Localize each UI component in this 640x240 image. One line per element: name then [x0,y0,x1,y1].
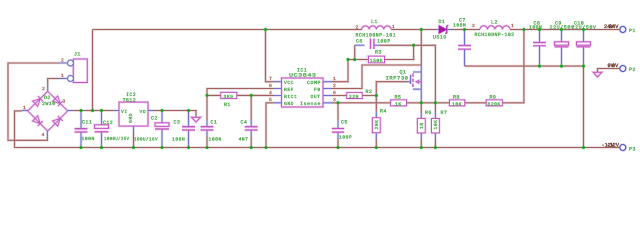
svg-text:GND: GND [284,101,294,107]
svg-text:FB: FB [314,87,321,93]
resistor R7 [432,110,448,133]
wire FB to drain row [332,65,422,89]
svg-text:J1: J1 [74,52,81,58]
svg-text:RtCt: RtCt [284,94,297,100]
capacitor C3 [172,120,195,143]
svg-text:R6: R6 [425,110,432,116]
wire Q1 source down [420,89,422,103]
inductor L2 [472,20,515,38]
svg-text:1000U/25V: 1000U/25V [104,136,130,142]
wire C3 branch [188,111,190,149]
svg-text:1: 1 [392,24,395,30]
svg-text:100U/16V: 100U/16V [134,136,158,142]
svg-text:VCC: VCC [284,80,294,86]
svg-text:IRF730: IRF730 [386,76,409,82]
resistor R8 [450,95,465,108]
capacitor C2 [134,115,169,142]
svg-text:4N7: 4N7 [239,136,249,142]
wire R1 row RtCt [207,94,273,96]
svg-text:100N: 100N [209,136,222,142]
svg-text:3: 3 [63,98,66,104]
svg-text:150K: 150K [370,58,383,64]
resistor R9 [486,95,502,108]
diode on bottom-right edge (B to R) [53,116,63,126]
wire Isense row [332,102,487,104]
wire R4 column [375,96,377,149]
svg-text:C4: C4 [241,120,248,126]
capacitor C10 [572,21,597,47]
svg-text:D1: D1 [439,19,446,25]
svg-text:20K: 20K [374,120,380,130]
svg-text:COMP: COMP [307,80,321,86]
svg-text:10K: 10K [433,120,439,130]
wire regulator output rail [154,111,196,118]
pad P2 0V [608,63,636,73]
connector J1 [59,52,88,83]
capacitor C8 [529,21,546,46]
svg-text:7: 7 [269,76,272,82]
bridge rectifier D2 [28,91,68,131]
resistor R4 [372,108,386,132]
wire C8 branch [539,30,541,67]
wire C6 right lead to R7 node [380,45,435,103]
svg-text:P2: P2 [629,67,636,73]
wire SW node vertical (rail to drain row) [420,30,422,66]
wire R7 column [434,103,436,148]
capacitor C1 [201,120,222,143]
wire C12 branch [101,111,103,149]
svg-text:100P: 100P [339,135,352,141]
wire J1 pin2 outer loop [8,63,61,140]
svg-text:C11: C11 [82,120,92,126]
svg-text:Q1: Q1 [400,69,407,75]
diode D1 [433,19,452,41]
wire C11 branch [80,111,82,149]
svg-text:100P: 100P [377,39,391,45]
svg-text:R2: R2 [366,89,373,95]
ground arrow at regulator rail [192,117,201,122]
svg-text:2: 2 [472,23,475,29]
wire R3 row [348,45,414,59]
resistor R6 [417,110,431,133]
wire J1 pin1 to bridge top [48,79,61,86]
svg-text:L2: L2 [491,20,498,26]
regulator IC2 7812 [113,92,154,148]
svg-text:RCH108NP-102: RCH108NP-102 [475,32,515,38]
svg-text:C6: C6 [356,39,363,45]
resistor R2 [347,89,373,100]
svg-text:OUT: OUT [311,94,321,100]
wire top 24V rail [93,30,620,111]
svg-text:820K: 820K [488,101,501,107]
wire COMP to compensation [332,60,349,82]
pad P1 24V [604,24,636,34]
svg-text:R9: R9 [490,95,497,101]
resistor R5 [391,95,407,108]
resistor R1 [221,92,237,107]
svg-text:24V: 24V [609,24,619,30]
wire 0V mid rail [465,65,584,67]
svg-text:C2: C2 [151,115,158,121]
bridge pin stubs [22,86,74,138]
wire C6 left / R3 left node [354,45,356,59]
capacitor C6 [355,39,391,50]
svg-text:2: 2 [356,25,359,31]
svg-text:C1: C1 [211,120,218,126]
capacitor C4 [239,120,258,143]
diode on top-left edge (L to T) [33,96,43,106]
svg-text:2: 2 [42,86,45,92]
wire REF elbow to R1 node [207,89,273,96]
svg-text:100N: 100N [453,22,466,28]
svg-text:8: 8 [269,83,272,89]
svg-text:R8: R8 [453,95,460,101]
wire R6 column [420,103,422,148]
transistor Q1 MOSFET [386,65,422,89]
svg-text:L1: L1 [371,19,378,25]
svg-text:2: 2 [333,83,336,89]
wire C9 branch [561,30,563,67]
svg-text:4: 4 [269,90,272,96]
svg-text:3: 3 [333,97,336,103]
svg-text:0V: 0V [612,63,619,69]
svg-text:3K9: 3K9 [224,94,234,100]
svg-text:C3: C3 [174,120,181,126]
svg-text:-12V: -12V [607,143,620,149]
wire bottom -12V rail [15,147,620,149]
svg-text:1: 1 [511,23,514,29]
svg-text:1: 1 [23,105,26,111]
wire C7 branch [464,30,466,67]
wire 0V rail drop to bottom rail [583,66,585,147]
diode on top-right edge (T to R) [53,96,63,106]
svg-text:1: 1 [61,73,64,79]
svg-text:5: 5 [269,97,272,103]
svg-text:1R: 1R [419,122,425,129]
svg-text:100N: 100N [82,136,95,142]
svg-text:P3: P3 [629,147,636,153]
wire bridge left vertex to bottom rail [15,111,23,148]
svg-text:220: 220 [349,94,359,100]
wire IC1 GND elbow [266,103,273,148]
wire P2 0V stub with ground arrow [598,69,620,73]
svg-text:4: 4 [42,132,45,138]
svg-text:R5: R5 [395,95,402,101]
op-amp controller IC1 UC3843 [269,68,336,107]
svg-text:2: 2 [61,58,64,64]
svg-text:GND: GND [128,113,134,123]
svg-text:6: 6 [333,90,336,96]
svg-text:10K: 10K [452,101,462,107]
svg-text:UC3843: UC3843 [289,73,317,79]
wire gate riser and gate row [376,82,407,96]
capacitor C9 [550,21,575,47]
diode on bottom-left edge (L to B) [33,116,43,126]
svg-text:P1: P1 [629,28,636,34]
svg-text:R3: R3 [375,50,382,56]
inductor L1 [356,19,397,39]
svg-text:C12: C12 [103,120,113,126]
wire C10 branch [583,30,585,67]
wire C2 branch [161,111,163,149]
svg-text:R4: R4 [380,108,387,114]
wire OUT row to R2 [332,95,377,97]
svg-text:VI: VI [121,109,128,115]
svg-text:REF: REF [284,87,294,93]
svg-text:100N: 100N [172,136,185,142]
ground arrow at P2 [593,72,602,77]
capacitor C11 [75,120,95,142]
svg-text:1K: 1K [395,101,402,107]
wire unregulated DC rail [74,110,114,112]
wire C4 branch [250,95,252,148]
svg-text:2W10: 2W10 [42,101,56,107]
svg-text:7812: 7812 [123,98,137,104]
wire C5 branch [337,103,339,148]
wire VCC feed vertical [266,30,274,82]
capacitor C5 [332,119,352,140]
svg-text:C5: C5 [341,119,348,125]
capacitor C12 [95,120,130,142]
capacitor C7 [453,17,471,49]
svg-text:US1G: US1G [433,34,447,40]
svg-text:Isense: Isense [300,101,321,107]
wire left vertical from unreg node to top rail [92,30,94,111]
svg-text:R1: R1 [224,102,231,108]
wire C1 branch [206,95,208,148]
svg-text:VO: VO [140,109,147,115]
svg-text:R7: R7 [441,110,448,116]
resistor R3 [369,50,385,64]
svg-text:1: 1 [333,76,336,82]
pad P3 -12V [602,143,636,153]
wire feedback vertical 24V to R9 [502,30,524,103]
